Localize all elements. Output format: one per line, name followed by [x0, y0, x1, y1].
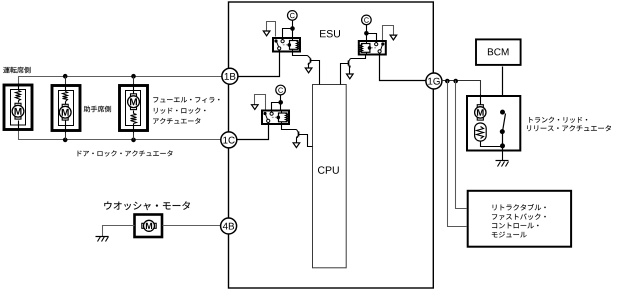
- label: fuel-filler-1: [153, 97, 219, 103]
- motor: trunk release: [480, 95, 482, 106]
- door lock actuator passenger side (box): [52, 86, 80, 131]
- CPU block: [313, 85, 347, 268]
- motor: washer: [142, 223, 144, 228]
- door lock actuator driver side (box): [4, 85, 32, 130]
- label: retractable-3: [492, 223, 538, 229]
- wire: relay3 contact feed branch: [272, 103, 281, 110]
- wire: relay2 arm out to connector arrow: [383, 26, 394, 41]
- wire: junction to retractable module input A: [448, 81, 467, 227]
- solenoid coil: trunk release: [480, 123, 482, 124]
- wire: Q2 emitter to connector arrow: [349, 67, 351, 75]
- label: fuel-filler-2: [154, 108, 206, 114]
- motor: fuel filler actuator: [133, 85, 135, 95]
- wire: BCM to trunk switch: [502, 67, 504, 113]
- connector arrow: relay1 arm: [263, 31, 270, 36]
- washer motor (box): [135, 215, 163, 238]
- connector arrow: relay3 arm: [252, 105, 259, 110]
- wire: relay1 contact feed branch: [283, 29, 293, 37]
- label: trunk-lid-1: [529, 117, 587, 123]
- node 4B: [221, 218, 237, 234]
- wire: relay1 arm out to connector arrow: [267, 22, 276, 37]
- connector symbol C (relay1 feed): [288, 11, 298, 21]
- BCM block: [476, 39, 521, 65]
- wire: Q3 emitter to connector arrow: [296, 138, 298, 143]
- trunk lid release actuator (box): [467, 96, 520, 151]
- wire: junction to retractable module input B: [456, 81, 467, 209]
- label: door-lock-actuator: [78, 150, 173, 156]
- node: junction fuel-filler actuator top: [131, 74, 136, 79]
- resistor: fuel filler actuator: [133, 111, 135, 114]
- wire: relay3 C feed: [280, 95, 282, 110]
- node 1G: [426, 73, 442, 89]
- wire: relay1 coil to transistor Q1: [293, 53, 308, 56]
- transistor Q2: [349, 59, 351, 62]
- label: passenger-side: [84, 106, 111, 112]
- transistor Q1: [308, 56, 311, 59]
- wire: Q1 base to CPU: [311, 61, 320, 85]
- wire: door lock bottom bus to 1C: [19, 131, 221, 140]
- label: driver-side: [3, 67, 30, 73]
- wire: relay3 coil to transistor Q3: [282, 125, 297, 130]
- label: retractable-4: [492, 232, 527, 238]
- node: relay1 feed junction: [290, 26, 295, 31]
- wire: relay2 C feed: [366, 25, 368, 41]
- node: relay3 feed junction: [278, 100, 283, 105]
- connector symbol C (relay3 feed): [276, 85, 286, 95]
- label: trunk-lid-2: [527, 125, 611, 131]
- node 1B: [222, 68, 238, 84]
- node 1C: [221, 132, 237, 148]
- label: retractable-1: [493, 204, 546, 210]
- connector arrow: Q2 emitter: [347, 74, 354, 79]
- label: CPU: [318, 166, 339, 173]
- connector arrow: relay2 arm: [390, 35, 397, 40]
- wire: relay2 coil to transistor Q2: [351, 56, 366, 59]
- wire: relay3 contact to 1C: [237, 125, 269, 140]
- label: washer-motor: [104, 201, 190, 210]
- wire: switch to ground: [502, 152, 504, 161]
- ground: washer motor: [96, 236, 109, 238]
- relay K1: [273, 38, 300, 52]
- node: junction to retractable module (inner): [453, 79, 458, 84]
- resistor: actuator 2 coil: [63, 92, 68, 102]
- relay K3: [262, 111, 289, 125]
- node: relay2 feed junction: [364, 31, 369, 36]
- wire: relay3 arm out to connector arrow: [255, 95, 266, 110]
- relay K2: [359, 41, 386, 55]
- node: junction fuel-filler actuator bottom: [131, 138, 136, 143]
- wire: through actuator 2: [65, 85, 67, 92]
- label: retractable-2: [492, 214, 546, 220]
- fuel filler lid lock actuator (box): [120, 86, 148, 131]
- motor: actuator 1: [18, 101, 20, 103]
- wire: driver-side top bus to 1B: [19, 77, 222, 84]
- wire: solenoid to switch bottom: [481, 142, 503, 147]
- switch: trunk release: [503, 114, 506, 132]
- wire: relay1 contact to 1B: [239, 53, 280, 77]
- connector symbol C (relay2 feed): [362, 15, 372, 25]
- ESU module box: [229, 2, 434, 288]
- transistor Q3: [297, 130, 299, 133]
- ground: trunk release actuator: [496, 160, 509, 162]
- retractable fastback control module (box): [468, 191, 571, 247]
- wire: washer to ground: [103, 226, 135, 237]
- wire: Q3 base to CPU: [299, 135, 313, 147]
- motor: actuator 2: [65, 102, 67, 105]
- node: junction passenger actuator top: [63, 74, 68, 79]
- wire: fuel filler actuator stubs: [133, 77, 135, 85]
- connector arrow: Q1 emitter: [305, 68, 312, 73]
- connector arrow: Q3 emitter: [293, 143, 300, 148]
- label: ESU: [320, 30, 340, 37]
- node: junction passenger actuator bottom: [63, 138, 68, 143]
- resistor: actuator 1 coil: [16, 91, 21, 101]
- node: junction to retractable module (outer): [445, 79, 450, 84]
- wire: passenger actuator stubs: [65, 77, 67, 85]
- label: fuel-filler-3: [153, 118, 200, 124]
- wire: relay1 C feed: [292, 21, 294, 37]
- wire: relay2 contact feed branch: [367, 34, 377, 41]
- wire: Q1 emitter to connector arrow: [308, 64, 310, 69]
- wire: Q2 base to CPU: [341, 64, 349, 85]
- wire: 1G to trunk actuator motor: [442, 81, 481, 95]
- label: BCM: [488, 48, 509, 55]
- wire: through actuator 1: [18, 84, 20, 91]
- wire: relay2 contact to 1G: [380, 56, 426, 81]
- wire: washer to 4B: [163, 225, 221, 227]
